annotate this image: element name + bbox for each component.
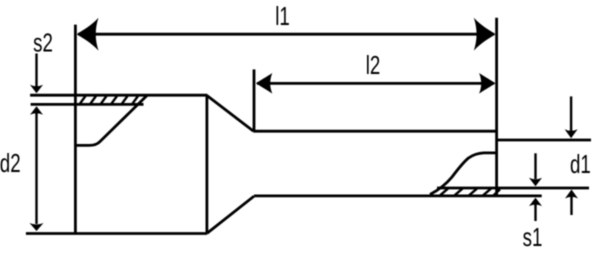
s1 down arrowhead <box>529 178 542 187</box>
s2/d2 up arrowhead <box>30 106 43 115</box>
collar funnel chamfer <box>75 96 147 146</box>
d1 inner-top extension line <box>497 139 591 142</box>
hatching collar wall (s2) <box>80 96 138 104</box>
s1 up arrowhead <box>529 198 542 207</box>
s1 lower arrow shaft <box>534 204 536 221</box>
s2 upper arrow shaft <box>35 54 37 88</box>
svg-text:l2: l2 <box>366 50 381 80</box>
s1 upper arrow shaft <box>534 153 536 179</box>
s2 down arrowhead <box>30 85 43 94</box>
tube inner bottom line / d1-s1 extension line <box>437 187 589 190</box>
d1 upper arrow shaft <box>570 96 572 131</box>
tube right end edge / l1 right extension line <box>495 18 498 197</box>
svg-text:s2: s2 <box>33 27 53 57</box>
l1 dimension line <box>78 33 494 36</box>
tube top line <box>253 130 496 133</box>
collar top edge / s2 top extension line <box>30 94 207 97</box>
svg-text:d1: d1 <box>570 149 591 179</box>
hatching tube wall (s1) <box>440 189 500 196</box>
collar inner top line / s2 lower extension line <box>31 103 144 106</box>
d1 lower arrow shaft <box>570 196 572 215</box>
collar bottom edge / d2 extension line <box>26 232 207 235</box>
d2 dimension shaft <box>35 112 37 224</box>
tube break-out curve <box>430 153 497 195</box>
l2 left extension line <box>253 69 256 131</box>
l2 left arrowhead <box>256 73 272 94</box>
l2 right arrowhead <box>479 73 495 94</box>
l1 right arrowhead <box>474 18 496 51</box>
tube outer bottom line / s1 lower extension line <box>254 194 542 197</box>
d2 down arrowhead <box>30 223 44 231</box>
l1 left arrowhead <box>77 18 99 51</box>
svg-text:d2: d2 <box>0 148 21 178</box>
taper top diagonal <box>207 96 254 132</box>
d1 down arrowhead <box>565 129 578 138</box>
collar left edge / l1 left extension line <box>74 25 77 234</box>
d1 up arrowhead <box>565 190 578 199</box>
taper bottom diagonal <box>207 196 254 233</box>
svg-text:l1: l1 <box>275 1 290 31</box>
l2 dimension line <box>257 82 494 85</box>
collar right edge <box>205 95 208 233</box>
svg-text:s1: s1 <box>523 222 543 252</box>
